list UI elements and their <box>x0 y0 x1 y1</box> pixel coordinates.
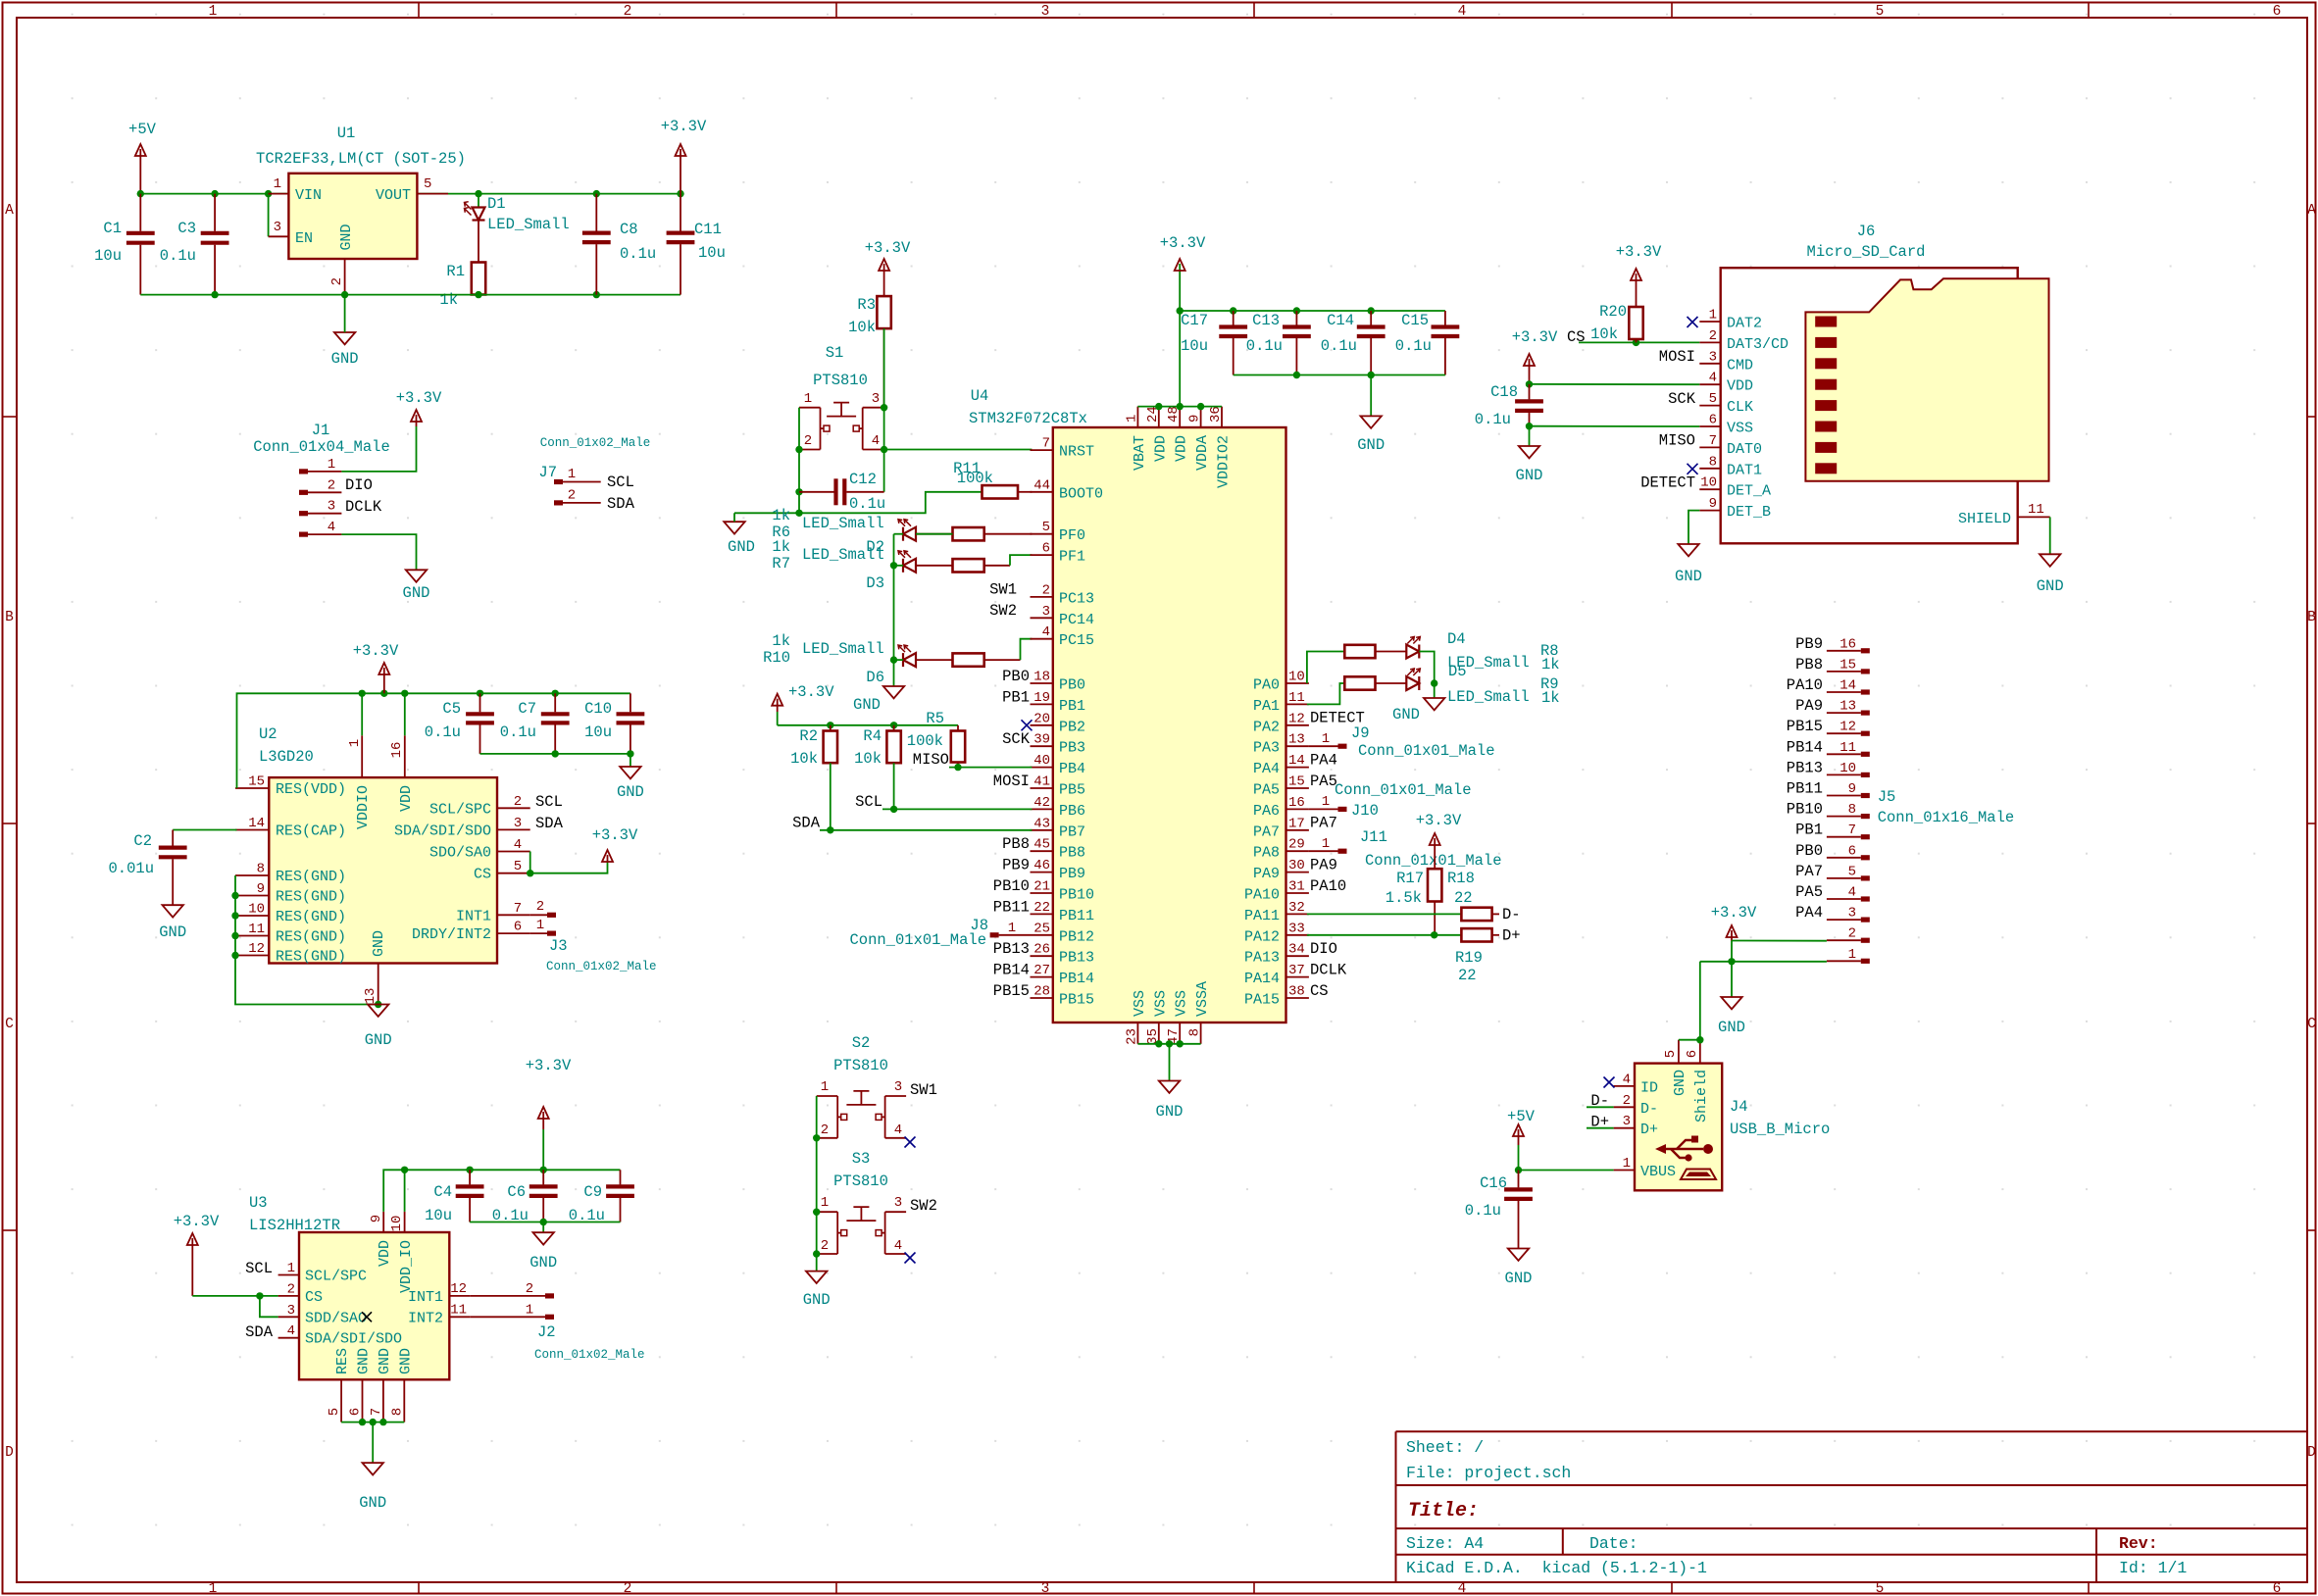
svg-text:16: 16 <box>1839 636 1856 652</box>
svg-text:DAT2: DAT2 <box>1727 316 1762 332</box>
svg-text:D-: D- <box>1640 1101 1658 1118</box>
svg-text:15: 15 <box>1288 774 1305 790</box>
svg-text:10: 10 <box>1288 670 1305 685</box>
svg-text:RES(CAP): RES(CAP) <box>276 823 346 840</box>
J6 pin 3 (CMD) <box>1699 363 1720 365</box>
svg-text:PTS810: PTS810 <box>833 1057 888 1074</box>
svg-text:0.1u: 0.1u <box>1475 411 1511 428</box>
junction <box>881 404 887 411</box>
ground at J6 shield <box>2040 554 2060 566</box>
svg-text:PB0: PB0 <box>1002 668 1030 685</box>
svg-text:R1: R1 <box>446 263 465 280</box>
svg-text:4: 4 <box>894 1122 902 1138</box>
svg-text:+3.3V: +3.3V <box>865 239 911 257</box>
junction <box>379 1419 386 1425</box>
junction <box>1230 307 1236 314</box>
J5 pin 16 <box>1861 648 1870 653</box>
svg-text:C15: C15 <box>1401 312 1429 329</box>
svg-text:D5: D5 <box>1448 663 1467 680</box>
junction <box>359 690 366 697</box>
U2 pin 10 <box>235 915 269 917</box>
svg-text:PB1: PB1 <box>1795 822 1823 839</box>
no-connect J4 ID <box>1604 1077 1615 1088</box>
junction <box>627 750 633 757</box>
svg-text:J11: J11 <box>1360 828 1387 846</box>
wire to gnd (U3 caps) <box>542 1222 544 1233</box>
svg-text:PA5: PA5 <box>1795 883 1823 901</box>
svg-text:33: 33 <box>1288 921 1305 936</box>
power symbol +5V <box>135 144 146 194</box>
J6 pin 7 (DAT0) <box>1699 446 1720 448</box>
svg-text:J2: J2 <box>537 1323 556 1341</box>
J3 pin 2 lead <box>530 914 547 916</box>
svg-text:C: C <box>2307 1017 2316 1032</box>
svg-text:R10: R10 <box>763 649 790 667</box>
J5 pin 16 lead <box>1827 650 1861 652</box>
svg-text:22: 22 <box>1033 900 1050 916</box>
svg-text:LED_Small: LED_Small <box>487 216 570 233</box>
svg-text:R5: R5 <box>926 710 944 727</box>
J5 pin 7 <box>1861 834 1870 839</box>
svg-text:LED_Small: LED_Small <box>802 546 884 564</box>
regulator U1 pin 2 <box>344 259 346 295</box>
svg-text:9: 9 <box>1709 496 1717 512</box>
svg-text:13: 13 <box>1839 699 1856 715</box>
J6 pin 9 (DET_B) <box>1699 510 1720 512</box>
svg-text:5: 5 <box>1709 391 1717 407</box>
junction <box>211 190 218 197</box>
svg-text:J1: J1 <box>312 422 330 439</box>
svg-text:R2: R2 <box>799 727 818 745</box>
svg-text:19: 19 <box>1033 690 1050 706</box>
svg-text:0.1u: 0.1u <box>160 247 196 265</box>
U4 pin 3 (PC14) <box>1031 617 1053 619</box>
U4 pin 39 (PB3) <box>1031 745 1053 747</box>
wire PA12 (D+) <box>1307 934 1462 936</box>
svg-text:C14: C14 <box>1327 312 1354 329</box>
svg-text:3: 3 <box>1041 4 1050 20</box>
svg-text:4: 4 <box>287 1323 295 1339</box>
junction <box>341 291 348 298</box>
junction <box>890 562 897 569</box>
U4 pin 8 (VSSA) <box>1200 1022 1202 1044</box>
svg-text:RES(GND): RES(GND) <box>276 889 346 906</box>
svg-text:29: 29 <box>1288 837 1305 853</box>
svg-text:PA1: PA1 <box>1253 698 1280 715</box>
svg-text:GND: GND <box>1675 568 1702 585</box>
wire gnd bottom rail <box>140 294 680 296</box>
svg-text:LED_Small: LED_Small <box>802 515 884 532</box>
svg-text:GND: GND <box>377 1348 393 1374</box>
ground at U4 caps <box>1361 416 1382 427</box>
svg-text:31: 31 <box>1288 879 1305 895</box>
svg-text:1: 1 <box>1623 1156 1631 1172</box>
junction <box>359 1419 366 1425</box>
J1 pin 3 <box>299 511 308 516</box>
svg-text:11: 11 <box>248 922 265 937</box>
svg-text:GND: GND <box>1156 1103 1184 1121</box>
svg-text:1k: 1k <box>1541 656 1560 673</box>
svg-text:9: 9 <box>1848 781 1856 797</box>
svg-text:PA6: PA6 <box>1253 803 1280 820</box>
J1 pin 1 <box>299 469 308 474</box>
accel U3 body <box>299 1232 449 1379</box>
junction <box>813 1209 820 1216</box>
U4 pin 12 (PA2) <box>1286 724 1309 726</box>
svg-text:MOSI: MOSI <box>1659 348 1695 366</box>
svg-text:ID: ID <box>1640 1079 1658 1096</box>
ground at S1 <box>724 522 744 533</box>
svg-text:VDDIO: VDDIO <box>355 785 372 829</box>
wire VOUT to D1 <box>478 194 479 208</box>
U4 pin 14 (PA4) <box>1286 767 1309 769</box>
J5 pin 3 lead <box>1827 919 1861 921</box>
junction <box>1177 403 1184 410</box>
svg-text:PC15: PC15 <box>1059 632 1094 649</box>
svg-text:20: 20 <box>1033 711 1050 726</box>
U4 pin 46 (PB9) <box>1031 872 1053 873</box>
svg-text:PB1: PB1 <box>1002 688 1030 706</box>
svg-text:+3.3V: +3.3V <box>526 1057 572 1074</box>
ground at S2/S3 <box>806 1272 827 1283</box>
resistor R10 body <box>916 653 1021 666</box>
J1 pin 1 lead <box>308 471 341 473</box>
svg-text:14: 14 <box>1839 678 1856 694</box>
U4 pin 5 (PF0) <box>1031 533 1053 535</box>
wire RES(CAP) to C2 <box>173 829 236 831</box>
junction <box>401 1167 408 1173</box>
svg-text:15: 15 <box>1839 657 1856 673</box>
U2 pin 7 <box>497 914 530 916</box>
svg-text:Conn_01x01_Male: Conn_01x01_Male <box>1335 781 1472 799</box>
power symbol +3.3V (U3 caps) <box>538 1107 549 1129</box>
wire U2 caps gnd rail <box>480 753 630 755</box>
svg-text:GND: GND <box>529 1254 557 1272</box>
svg-text:S2: S2 <box>852 1034 871 1052</box>
svg-text:Conn_01x02_Male: Conn_01x02_Male <box>546 960 657 973</box>
power symbol +3.3V (R2) <box>772 694 782 712</box>
wire J4 shield riser <box>1699 962 1701 1040</box>
U4 pin 28 (PB15) <box>1031 997 1053 999</box>
svg-text:Conn_01x04_Male: Conn_01x04_Male <box>253 438 390 456</box>
ground at J6 DET_B <box>1678 544 1698 556</box>
junction <box>1526 380 1533 387</box>
svg-text:1: 1 <box>1008 921 1016 936</box>
svg-text:0.01u: 0.01u <box>108 860 154 877</box>
svg-text:6: 6 <box>2273 1581 2282 1596</box>
svg-text:DIO: DIO <box>1310 940 1337 958</box>
svg-text:GND: GND <box>728 538 755 556</box>
ground at C16 <box>1508 1249 1529 1261</box>
svg-text:42: 42 <box>1033 795 1050 811</box>
junction <box>677 190 683 197</box>
svg-text:3: 3 <box>872 391 880 407</box>
svg-text:PB8: PB8 <box>1059 845 1085 862</box>
wire vss to gnd <box>1169 1044 1171 1081</box>
wire pullup rail <box>778 724 958 726</box>
svg-text:5: 5 <box>1876 4 1885 20</box>
junction <box>795 446 802 453</box>
J6 pin 5 (CLK) <box>1699 405 1720 407</box>
svg-text:PB14: PB14 <box>1059 971 1094 987</box>
svg-text:U2: U2 <box>259 725 277 743</box>
svg-text:S3: S3 <box>852 1150 871 1168</box>
svg-text:LED_Small: LED_Small <box>1447 688 1530 706</box>
U4 pin 23 (VSS) <box>1136 1022 1138 1044</box>
capacitor C2 <box>159 830 187 906</box>
svg-text:0.1u: 0.1u <box>1465 1202 1501 1220</box>
U4 pin 43 (PB7) <box>1031 829 1053 831</box>
svg-text:2: 2 <box>568 488 576 504</box>
junction <box>1177 1040 1184 1047</box>
svg-text:PB9: PB9 <box>1059 866 1085 882</box>
svg-text:PB8: PB8 <box>1795 656 1823 673</box>
svg-text:27: 27 <box>1033 963 1050 978</box>
svg-text:11: 11 <box>450 1303 467 1319</box>
J1 pin 2 <box>299 490 308 495</box>
svg-text:SCK: SCK <box>1002 730 1031 748</box>
svg-text:3: 3 <box>328 499 335 515</box>
svg-text:1: 1 <box>274 176 281 192</box>
svg-text:SCL/SPC: SCL/SPC <box>305 1269 367 1285</box>
junction <box>527 870 533 876</box>
svg-text:+3.3V: +3.3V <box>174 1213 220 1230</box>
svg-text:10u: 10u <box>584 723 612 741</box>
svg-text:+3.3V: +3.3V <box>592 826 638 844</box>
svg-text:DETECT: DETECT <box>1640 474 1695 491</box>
J5 pin 15 lead <box>1827 671 1861 673</box>
svg-text:GND: GND <box>1392 706 1420 723</box>
ground at U3 caps <box>533 1232 554 1244</box>
svg-text:DAT0: DAT0 <box>1727 441 1762 458</box>
capacitor C8 <box>582 194 611 295</box>
U4 pin 35 (VSS) <box>1158 1022 1160 1044</box>
U3 pin 8 <box>403 1379 405 1421</box>
svg-text:18: 18 <box>1033 670 1050 685</box>
svg-text:VSS: VSS <box>1174 990 1190 1017</box>
svg-text:PA9: PA9 <box>1253 866 1280 882</box>
svg-text:3: 3 <box>274 220 281 235</box>
svg-text:SCL: SCL <box>855 793 882 811</box>
junction <box>540 1167 547 1173</box>
J8 pin lead <box>999 934 1031 936</box>
svg-text:J9: J9 <box>1351 724 1370 742</box>
J9 pin 1 <box>1338 744 1347 749</box>
J5 pin 3 <box>1861 918 1870 923</box>
svg-text:PF0: PF0 <box>1059 527 1085 544</box>
svg-text:PA4: PA4 <box>1310 752 1337 770</box>
svg-text:PB11: PB11 <box>1059 908 1094 924</box>
svg-text:PA11: PA11 <box>1244 908 1280 924</box>
J6 pin 10 (DET_A) <box>1699 488 1720 490</box>
resistor R5 <box>951 725 965 768</box>
svg-text:Sheet: /: Sheet: / <box>1406 1438 1484 1457</box>
wire CS to DAT3 <box>1579 341 1699 343</box>
wire gnd / R11 <box>734 492 983 514</box>
svg-text:D6: D6 <box>866 669 884 686</box>
svg-text:EN: EN <box>295 230 313 247</box>
J5 pin 14 lead <box>1827 691 1861 693</box>
junction <box>1177 307 1184 314</box>
svg-text:3: 3 <box>1709 349 1717 365</box>
J4 pin 6 (Shield) <box>1699 1040 1701 1064</box>
junction <box>552 690 559 697</box>
svg-text:6: 6 <box>1685 1050 1700 1058</box>
svg-text:C2: C2 <box>133 832 152 850</box>
svg-text:2: 2 <box>821 1122 829 1138</box>
wire VDD (J6) <box>1530 383 1700 385</box>
power symbol +3.3V (U2 CS) <box>602 850 613 862</box>
U4 pin 45 (PB8) <box>1031 850 1053 852</box>
svg-text:PC13: PC13 <box>1059 590 1094 607</box>
svg-text:DRDY/INT2: DRDY/INT2 <box>412 926 491 943</box>
junction <box>1166 1040 1173 1047</box>
svg-text:PA4: PA4 <box>1253 761 1280 777</box>
junction <box>1633 339 1639 346</box>
svg-text:+5V: +5V <box>1507 1108 1536 1125</box>
svg-text:1: 1 <box>347 739 363 747</box>
wire U3 vdd rail <box>383 1170 620 1212</box>
svg-text:PB0: PB0 <box>1795 842 1823 860</box>
no-connect J6 DAT2 <box>1688 317 1698 327</box>
svg-text:GND: GND <box>331 350 359 368</box>
svg-text:VDD: VDD <box>398 785 415 812</box>
wire U2 +3.3V top rail <box>237 693 630 788</box>
svg-text:10u: 10u <box>698 244 726 262</box>
U2 pin 9 <box>235 895 269 897</box>
SD card contact pads <box>1815 317 1837 474</box>
svg-text:GND: GND <box>1718 1019 1745 1036</box>
svg-text:5: 5 <box>1042 520 1050 535</box>
svg-text:2: 2 <box>1623 1093 1631 1109</box>
svg-text:5: 5 <box>514 859 522 874</box>
svg-text:2: 2 <box>804 433 812 449</box>
svg-text:RES(GND): RES(GND) <box>276 949 346 966</box>
junction <box>1728 958 1735 965</box>
U4 pin 21 (PB10) <box>1031 892 1053 894</box>
svg-text:C4: C4 <box>433 1183 452 1201</box>
svg-text:12: 12 <box>1288 711 1305 726</box>
U4 pin 13 (PA3) <box>1286 745 1309 747</box>
svg-text:Conn_01x01_Male: Conn_01x01_Male <box>1365 852 1502 870</box>
svg-text:PTS810: PTS810 <box>813 372 868 389</box>
wire +3.3V drop to U4 <box>1179 264 1181 407</box>
svg-text:C1: C1 <box>103 220 122 237</box>
wire D3 to PF1 <box>1010 555 1032 566</box>
wire +5V to VBUS <box>1519 1170 1614 1172</box>
svg-text:SDA: SDA <box>607 495 635 513</box>
svg-text:SCL: SCL <box>245 1260 273 1277</box>
J5 pin 13 <box>1861 711 1870 716</box>
svg-text:TCR2EF33,LM(CT (SOT-25): TCR2EF33,LM(CT (SOT-25) <box>256 150 466 168</box>
svg-text:D-: D- <box>1502 906 1521 923</box>
junction <box>256 1292 263 1299</box>
svg-text:1: 1 <box>209 1581 218 1596</box>
power symbol +5V (J4) <box>1513 1124 1524 1145</box>
svg-text:PB3: PB3 <box>1059 740 1085 757</box>
svg-text:34: 34 <box>1288 942 1305 958</box>
svg-text:Conn_01x16_Male: Conn_01x16_Male <box>1878 809 2015 826</box>
svg-text:1: 1 <box>526 1303 533 1319</box>
wire SDA <box>820 829 1032 831</box>
power symbol +3.3V (U4) <box>1175 259 1185 271</box>
svg-text:PB7: PB7 <box>1059 823 1085 840</box>
svg-text:PA13: PA13 <box>1244 950 1280 967</box>
U4 pin 44 (BOOT0) <box>1031 491 1053 493</box>
svg-text:43: 43 <box>1033 816 1050 831</box>
U4 pin 2 (PC13) <box>1031 596 1053 598</box>
wire S2/S3 gnd bus <box>816 1096 818 1272</box>
svg-text:14: 14 <box>1288 753 1305 769</box>
J5 pin 5 lead <box>1827 877 1861 879</box>
power symbol +3.3V (J1) <box>411 410 422 426</box>
ground at J1 <box>406 570 427 581</box>
J4 pin 4 (ID) <box>1614 1085 1635 1087</box>
svg-text:1.5k: 1.5k <box>1386 889 1422 907</box>
svg-text:1k: 1k <box>1541 689 1560 707</box>
J3 pin 1 lead <box>530 932 547 934</box>
wire J1 pin4 to ground <box>341 534 416 570</box>
svg-text:GND: GND <box>617 783 644 801</box>
U2 pin 14 <box>235 829 269 831</box>
svg-text:PB15: PB15 <box>1059 992 1094 1009</box>
J5 pin 5 <box>1861 875 1870 880</box>
svg-text:10: 10 <box>389 1216 405 1232</box>
svg-text:32: 32 <box>1288 900 1305 916</box>
svg-text:38: 38 <box>1288 984 1305 1000</box>
U2 pin 8 <box>235 874 269 876</box>
svg-text:Conn_01x01_Male: Conn_01x01_Male <box>849 931 986 949</box>
svg-text:VDDIO2: VDDIO2 <box>1216 435 1233 488</box>
ground at U2 pin13 <box>368 1005 388 1017</box>
J5 pin 11 lead <box>1827 753 1861 755</box>
svg-text:10u: 10u <box>94 247 122 265</box>
wire +3.3V to U3 CS <box>192 1295 277 1297</box>
svg-text:SW1: SW1 <box>989 580 1017 598</box>
wire C18 to gnd <box>1529 426 1531 446</box>
svg-text:5: 5 <box>1663 1050 1679 1058</box>
svg-text:A: A <box>2307 203 2316 219</box>
svg-text:J5: J5 <box>1878 788 1896 806</box>
wire MISO <box>949 767 1032 769</box>
svg-text:+3.3V: +3.3V <box>661 118 707 135</box>
svg-text:DET_B: DET_B <box>1727 504 1771 521</box>
U2 pin 2 <box>497 807 530 809</box>
junction <box>1526 423 1533 429</box>
wire S1 gnd drop <box>733 513 735 522</box>
svg-text:4: 4 <box>1458 4 1467 20</box>
ground at C2 <box>163 905 183 917</box>
J7 pin 2 <box>554 500 563 505</box>
capacitor C9 <box>606 1170 634 1222</box>
wire J1 pin1 to +3.3V <box>341 426 416 472</box>
U3 pin 5 <box>340 1379 342 1421</box>
U2 pin 12 <box>235 955 269 957</box>
USB logo <box>1655 1136 1713 1162</box>
svg-text:10k: 10k <box>848 319 876 336</box>
junction <box>540 1219 547 1225</box>
svg-text:VDD: VDD <box>1174 435 1190 462</box>
ground at U3 <box>363 1463 383 1474</box>
wire S1 to NRST <box>884 449 1033 451</box>
capacitor C4 <box>456 1170 484 1222</box>
junction <box>477 690 483 697</box>
svg-text:GND: GND <box>359 1494 386 1512</box>
svg-text:25: 25 <box>1033 921 1050 936</box>
svg-text:3: 3 <box>287 1303 295 1319</box>
svg-text:8: 8 <box>1709 454 1717 470</box>
U4 pin 41 (PB5) <box>1031 787 1053 789</box>
